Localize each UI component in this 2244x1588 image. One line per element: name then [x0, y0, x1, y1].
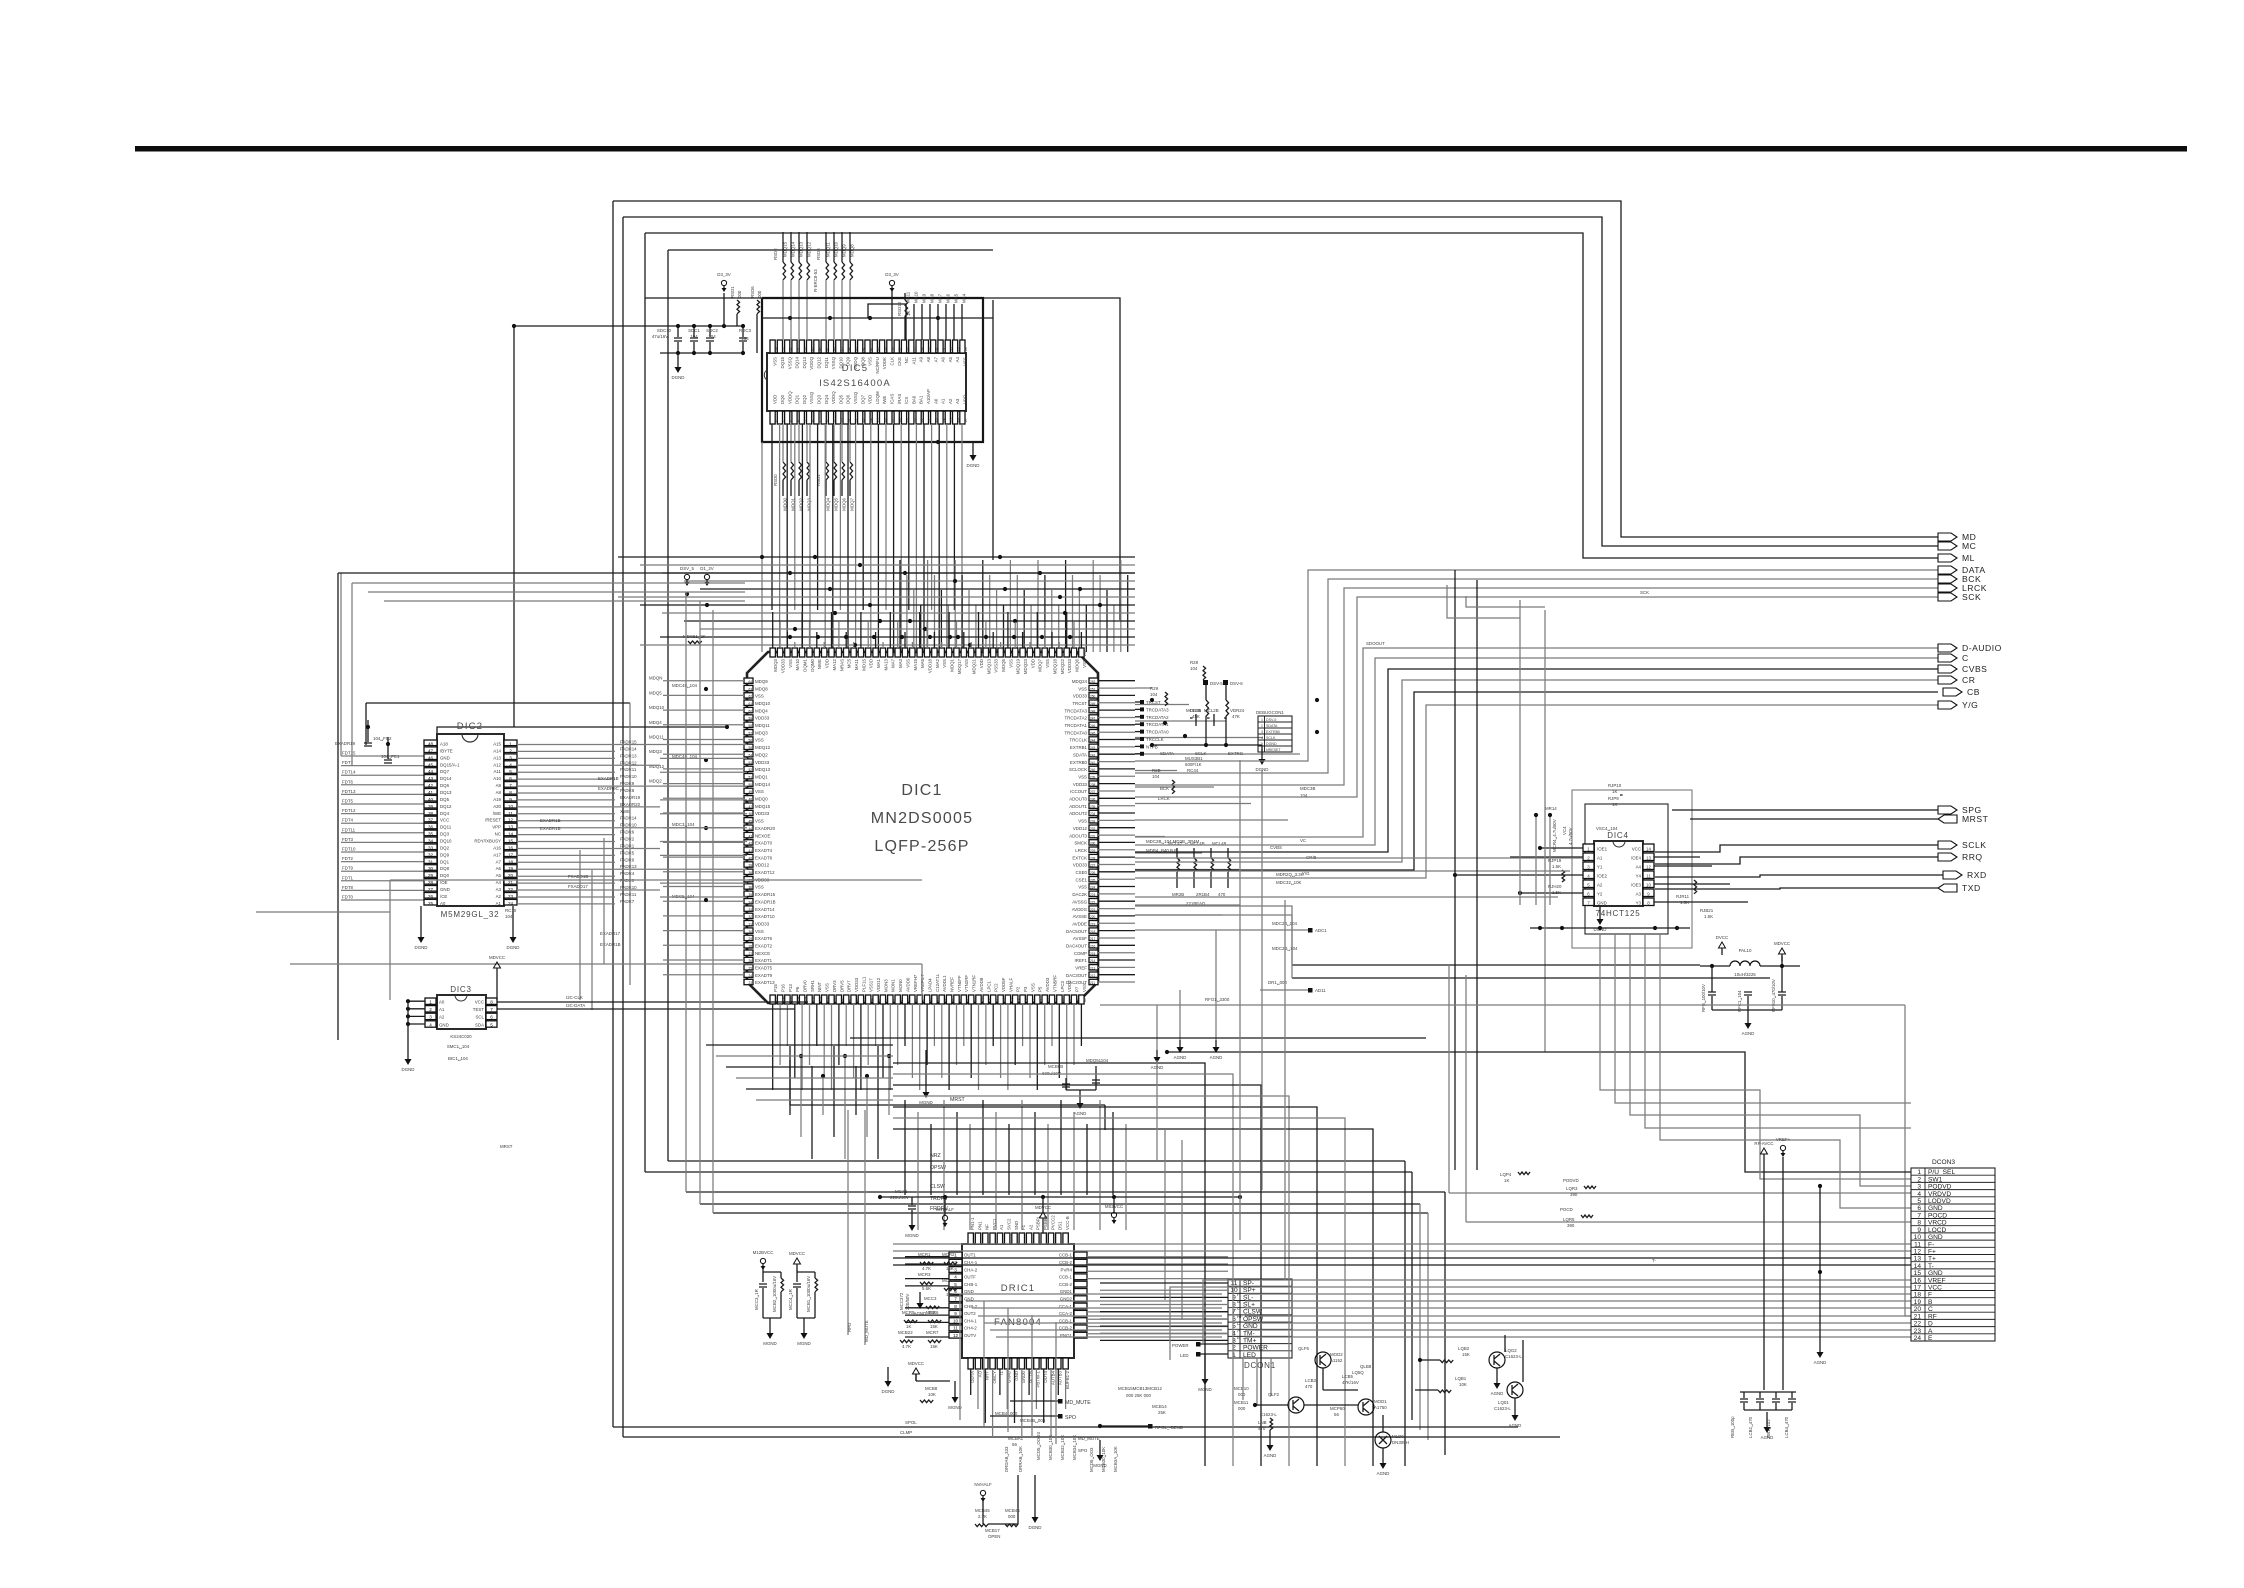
svg-text:FADR10: FADR10	[620, 823, 637, 828]
svg-text:46: 46	[749, 812, 753, 816]
svg-text:DRRAB␣10K: DRRAB␣10K	[1018, 1446, 1023, 1472]
svg-text:NVREF: NVREF	[950, 977, 955, 992]
svg-text:FDT4: FDT4	[342, 818, 354, 823]
svg-text:F: F	[1237, 1292, 1240, 1297]
svg-text:7: 7	[818, 420, 822, 422]
svg-text:219: 219	[966, 650, 970, 656]
svg-text:35: 35	[913, 347, 917, 351]
svg-text:1: 1	[429, 1000, 432, 1005]
svg-text:NC: NC	[904, 357, 909, 363]
svg-text:24: 24	[942, 418, 946, 422]
svg-text:MA7: MA7	[891, 658, 896, 668]
wires bottom small cluster	[982, 1501, 984, 1524]
svg-text:MA11: MA11	[906, 291, 911, 303]
svg-text:FADR10: FADR10	[620, 885, 637, 890]
svg-text:45: 45	[749, 820, 753, 824]
risers bottom mesh	[959, 1294, 961, 1420]
svg-text:DQ14: DQ14	[795, 356, 800, 368]
svg-text:93: 93	[877, 998, 881, 1002]
svg-text:FADR9: FADR9	[620, 781, 635, 786]
svg-text:DQ2: DQ2	[440, 846, 450, 851]
svg-text:52: 52	[749, 768, 753, 772]
svg-text:2: 2	[429, 1007, 432, 1012]
wires inductor to left	[1292, 964, 1700, 966]
svg-text:47: 47	[825, 347, 829, 351]
svg-text:VSS: VSS	[1078, 686, 1087, 691]
svg-text:AVDDE: AVDDE	[1072, 922, 1087, 927]
svg-text:12: 12	[854, 418, 858, 422]
svg-text:MRST: MRST	[1962, 814, 1989, 824]
svg-text:OUTV: OUTV	[964, 1333, 976, 1338]
svg-text:8: 8	[954, 1304, 957, 1309]
svg-text:44: 44	[428, 769, 434, 774]
svg-text:/RESET: /RESET	[485, 818, 501, 823]
wire MC net loop	[623, 217, 1938, 546]
svg-text:86: 86	[929, 998, 933, 1002]
svg-text:MCBA1: MCBA1	[1008, 1436, 1024, 1441]
svg-text:PN1: PN1	[977, 1221, 982, 1230]
svg-text:MDQ3: MDQ3	[773, 658, 778, 671]
svg-text:DQ5: DQ5	[838, 394, 843, 404]
output arrow BCK	[1938, 575, 1957, 583]
svg-text:MD_MUTE: MD_MUTE	[864, 1320, 869, 1342]
svg-text:MDQ0: MDQ0	[755, 797, 768, 802]
svg-text:VSS: VSS	[964, 659, 969, 668]
svg-text:208: 208	[885, 650, 889, 656]
DIC5 bottom pin row	[770, 411, 775, 424]
svg-text:NRAS: NRAS	[839, 659, 844, 671]
svg-text:DQ1: DQ1	[440, 859, 450, 864]
svg-text:LQP4: LQP4	[1500, 1172, 1512, 1177]
svg-text:FDT10: FDT10	[342, 847, 356, 852]
svg-text:/OE3: /OE3	[1631, 883, 1642, 888]
LED MLD01	[1375, 1432, 1391, 1448]
wires into DCON1	[1100, 1282, 1228, 1284]
svg-text:NC/RFU: NC/RFU	[875, 357, 880, 374]
svg-text:18: 18	[898, 418, 902, 422]
svg-text:47K: 47K	[1232, 714, 1240, 719]
svg-text:GND: GND	[1597, 901, 1607, 906]
svg-text:470: 470	[1218, 892, 1226, 897]
svg-text:MCB22: MCB22	[898, 1330, 913, 1335]
svg-text:231: 231	[1054, 650, 1058, 656]
svg-text:29: 29	[749, 937, 753, 941]
svg-text:43: 43	[428, 776, 434, 781]
svg-text:VSS: VSS	[963, 357, 968, 366]
ground AGND cluster C2	[1514, 1398, 1516, 1408]
svg-text:23: 23	[935, 418, 939, 422]
svg-text:NEXCE: NEXCE	[755, 951, 770, 956]
svg-text:RFO1␣3300: RFO1␣3300	[1205, 997, 1230, 1002]
svg-text:CCA-2: CCA-2	[1059, 1311, 1073, 1316]
svg-text:AVSSG: AVSSG	[1072, 899, 1087, 904]
svg-text:VSS: VSS	[788, 659, 793, 668]
svg-text:EXTCK: EXTCK	[1072, 855, 1087, 860]
wire CLSW	[686, 1191, 1445, 1193]
svg-text:MDQ11: MDQ11	[649, 735, 664, 740]
svg-text:MDVCC: MDVCC	[489, 955, 505, 960]
svg-text:MDQ12: MDQ12	[649, 764, 665, 769]
svg-text:40: 40	[876, 347, 880, 351]
svg-text:235: 235	[1090, 805, 1096, 809]
svg-text:52: 52	[789, 347, 793, 351]
svg-text:A11: A11	[911, 356, 916, 364]
svg-text:13: 13	[1646, 856, 1651, 861]
svg-text:EXADR1B: EXADR1B	[540, 818, 561, 823]
page top rule	[135, 146, 2187, 152]
svg-text:000: 000	[1238, 1392, 1246, 1397]
svg-text:AGND: AGND	[1377, 1471, 1390, 1476]
svg-text:60: 60	[749, 709, 753, 713]
wire RFO1 3300 long	[1100, 1004, 1905, 1006]
svg-text:244: 244	[1090, 739, 1096, 743]
wire loop around DIC4	[1585, 804, 1668, 934]
output arrow D-AUDIO	[1938, 644, 1957, 652]
svg-text:C: C	[1237, 1306, 1240, 1311]
svg-text:MDQ18: MDQ18	[1052, 658, 1057, 674]
svg-text:DQ11: DQ11	[824, 356, 829, 368]
svg-text:COMP: COMP	[1074, 951, 1087, 956]
svg-text:DRV7: DRV7	[847, 980, 852, 992]
svg-text:22: 22	[927, 418, 931, 422]
svg-text:DGND: DGND	[507, 945, 520, 950]
svg-text:FDT5: FDT5	[342, 799, 354, 804]
svg-text:FADR8: FADR8	[620, 788, 635, 793]
svg-text:38: 38	[749, 871, 753, 875]
svg-text:MCB8: MCB8	[925, 1386, 938, 1391]
wire NRZ	[668, 1160, 1405, 1162]
svg-text:TRCDATA3: TRCDATA3	[1146, 707, 1169, 712]
wire left vertical bus 1	[612, 201, 614, 1427]
svg-text:MDC3B: MDC3B	[1300, 786, 1315, 791]
svg-text:MR14: MR14	[1545, 806, 1557, 811]
svg-text:SDOOUT: SDOOUT	[1366, 641, 1385, 646]
IC DIC1 MN2DS0005 body	[747, 652, 1098, 1003]
svg-text:SCK: SCK	[1640, 590, 1649, 595]
svg-text:MRST: MRST	[500, 1144, 513, 1149]
svg-text:FDT6: FDT6	[342, 779, 354, 784]
svg-text:31: 31	[942, 347, 946, 351]
svg-text:DN305H: DN305H	[1392, 1440, 1409, 1445]
svg-text:DQ13: DQ13	[440, 790, 452, 795]
svg-text:POWER: POWER	[1172, 1343, 1189, 1348]
svg-text:56: 56	[1012, 1442, 1017, 1447]
svg-text:EXADT0: EXADT0	[755, 841, 773, 846]
svg-text:DIC2: DIC2	[457, 721, 483, 732]
svg-text:GND: GND	[440, 887, 450, 892]
svg-text:MN2DS0005: MN2DS0005	[871, 810, 973, 827]
svg-text:243: 243	[1090, 746, 1096, 750]
svg-text:Y4: Y4	[1636, 874, 1642, 879]
transistor cluster B wires	[1255, 1404, 1288, 1406]
svg-text:19: 19	[906, 418, 910, 422]
svg-text:MA10: MA10	[914, 291, 919, 303]
wire cap rail to DIC2 supply	[513, 326, 515, 727]
svg-text:MDQ6: MDQ6	[842, 497, 847, 510]
wires F-/F+/T+/T- long	[893, 1243, 1911, 1245]
svg-text:SPO: SPO	[1065, 1415, 1076, 1421]
resistors RSD1 RSD6 000 left of DIC5	[737, 300, 740, 314]
svg-text:VDD12: VDD12	[876, 977, 881, 992]
svg-text:213: 213	[1090, 967, 1096, 971]
svg-text:104: 104	[505, 914, 513, 919]
svg-text:25: 25	[949, 418, 953, 422]
svg-text:200: 200	[826, 650, 830, 656]
svg-text:9: 9	[954, 1311, 957, 1316]
svg-text:DAC3OUT: DAC3OUT	[1066, 973, 1087, 978]
svg-text:MGND: MGND	[905, 1233, 918, 1238]
svg-text:FXADD17: FXADD17	[568, 884, 588, 889]
svg-text:241: 241	[1090, 761, 1096, 765]
svg-text:230: 230	[1046, 650, 1050, 656]
svg-text:DQM1: DQM1	[803, 658, 808, 671]
svg-text:216: 216	[943, 650, 947, 656]
svg-text:DIC3: DIC3	[450, 985, 471, 994]
svg-text:MRST: MRST	[950, 1097, 966, 1103]
svg-text:104: 104	[708, 334, 716, 339]
svg-text:RRQ: RRQ	[1962, 852, 1983, 862]
verticals descending to FAN area	[904, 1100, 906, 1195]
svg-text:VSS33: VSS33	[994, 658, 999, 672]
svg-text:A1: A1	[941, 398, 946, 404]
svg-text:P5: P5	[1038, 986, 1043, 992]
svg-text:ADOUT2: ADOUT2	[1069, 811, 1087, 816]
svg-text:RSD3: RSD3	[816, 248, 821, 260]
svg-text:DQ7: DQ7	[860, 394, 865, 404]
svg-text:38: 38	[428, 811, 434, 816]
wires cluster C up	[1504, 1335, 1506, 1352]
svg-text:MDQ5: MDQ5	[1001, 658, 1006, 671]
svg-text:MDQ6: MDQ6	[1074, 658, 1079, 671]
svg-text:58: 58	[749, 724, 753, 728]
svg-text:PSBPL: PSBPL	[1036, 1215, 1041, 1230]
svg-text:20: 20	[913, 418, 917, 422]
svg-text:FADR5: FADR5	[620, 850, 635, 855]
svg-text:65: 65	[1083, 998, 1087, 1002]
svg-text:75: 75	[1010, 998, 1014, 1002]
svg-text:198: 198	[811, 650, 815, 656]
svg-text:VTN1RF: VTN1RF	[972, 975, 977, 992]
wire CR staircase	[1135, 680, 1938, 862]
svg-text:A3: A3	[955, 398, 960, 404]
svg-text:NRESET: NRESET	[1266, 748, 1281, 752]
svg-text:55: 55	[749, 746, 753, 750]
svg-text:34: 34	[920, 347, 924, 351]
svg-text:DRV0: DRV0	[803, 980, 808, 992]
svg-text:A9: A9	[496, 783, 502, 788]
svg-text:CLK: CLK	[890, 357, 895, 366]
IC DIC5 IS42S16400A body	[767, 353, 966, 411]
junction dots DIC4 rail	[1530, 927, 1690, 929]
svg-text:VSS: VSS	[1078, 819, 1087, 824]
svg-text:41: 41	[749, 849, 753, 853]
svg-text:RSD1: RSD1	[816, 474, 821, 486]
ground MGND below DCON1	[1204, 1354, 1206, 1372]
svg-text:MCB14: MCB14	[1152, 1404, 1167, 1409]
svg-text:M12BVCC: M12BVCC	[753, 1250, 774, 1255]
svg-text:EXADR1B: EXADR1B	[598, 776, 619, 781]
svg-text:DQ6: DQ6	[846, 394, 851, 404]
ground AGND DAC cluster	[1179, 1040, 1181, 1047]
wires cluster B	[1304, 1404, 1358, 1406]
svg-text:DQ3: DQ3	[440, 832, 450, 837]
svg-text:51: 51	[796, 347, 800, 351]
svg-text:34: 34	[749, 900, 753, 904]
svg-text:BA0: BA0	[911, 395, 916, 404]
ground MGND caps pair 2	[803, 1318, 805, 1326]
square markers MD_MUTE SPO	[1058, 1399, 1063, 1404]
svg-text:MCR6: MCR6	[926, 1310, 939, 1315]
wires FAN top bypass cluster	[880, 1196, 1240, 1198]
svg-text:222: 222	[1090, 900, 1096, 904]
svg-text:AGND: AGND	[1264, 1453, 1277, 1458]
svg-text:FADR9: FADR9	[620, 857, 635, 862]
svg-text:NINT: NINT	[817, 981, 822, 992]
wires DIC1 to DIC4 horizontal	[1135, 857, 1582, 859]
svg-text:MON1: MON1	[891, 979, 896, 992]
svg-text:40: 40	[428, 797, 434, 802]
svg-text:41: 41	[869, 347, 873, 351]
svg-text:OPEN: OPEN	[988, 1534, 1000, 1539]
svg-text:VDD: VDD	[825, 659, 830, 668]
svg-text:8: 8	[490, 1000, 493, 1005]
svg-text:11: 11	[508, 811, 513, 816]
svg-text:CVBS: CVBS	[1270, 845, 1282, 850]
svg-text:25K: 25K	[1158, 1410, 1166, 1415]
svg-text:VDDQ: VDDQ	[809, 356, 814, 369]
svg-text:LDQM: LDQM	[875, 391, 880, 404]
svg-text:4: 4	[796, 420, 800, 422]
svg-text:MCB9B: MCB9B	[1048, 1064, 1063, 1069]
svg-text:MCC4␣1R: MCC4␣1R	[788, 1289, 793, 1310]
svg-text:100: 100	[826, 996, 830, 1002]
svg-text:DQM0: DQM0	[810, 658, 815, 671]
svg-text:CLMP: CLMP	[900, 1430, 912, 1435]
svg-text:FDT3: FDT3	[342, 837, 354, 842]
svg-text:CCB-1: CCB-1	[1059, 1275, 1073, 1280]
svg-text:DS1: DS1	[1058, 1221, 1063, 1230]
svg-text:33: 33	[749, 908, 753, 912]
svg-text:EXADT13: EXADT13	[755, 980, 775, 985]
svg-text:VSS: VSS	[1030, 983, 1035, 992]
svg-text:VDD33: VDD33	[1073, 863, 1088, 868]
resistor network RSD1 array below DIC5	[826, 462, 829, 480]
svg-text:DQ15/A-1: DQ15/A-1	[440, 762, 460, 767]
svg-text:104: 104	[1150, 692, 1158, 697]
square marker BPOL-BEND	[1148, 1424, 1153, 1429]
svg-text:LNB: LNB	[1258, 1420, 1267, 1425]
svg-text:221: 221	[980, 650, 984, 656]
svg-text:A15: A15	[493, 742, 501, 747]
DIC1 left pin column	[744, 678, 753, 683]
svg-text:229: 229	[1090, 849, 1096, 853]
wire TRDRV	[700, 1203, 1420, 1205]
svg-text:54: 54	[774, 347, 778, 351]
svg-text:19: 19	[508, 866, 514, 871]
svg-text:15K: 15K	[1462, 1352, 1470, 1357]
svg-text:VREFH7: VREFH7	[913, 974, 918, 992]
svg-text:OUT2: OUT2	[964, 1311, 976, 1316]
svg-text:213: 213	[921, 650, 925, 656]
svg-text:DQ1: DQ1	[795, 394, 800, 404]
DIC1 right pin stub wires	[1098, 680, 1135, 682]
wire loop top-left extension	[645, 297, 763, 299]
svg-text:MGND: MGND	[797, 1341, 810, 1346]
svg-text:DAC4OUT: DAC4OUT	[1066, 944, 1087, 949]
svg-text:MCL2B: MCL2B	[1186, 708, 1201, 713]
svg-text:4: 4	[509, 762, 512, 767]
capacitor RDC3 104	[742, 326, 744, 337]
svg-text:RXD: RXD	[1967, 870, 1987, 880]
DIC1 top pin stub wires	[772, 612, 774, 648]
svg-text:LPC3: LPC3	[1060, 980, 1065, 992]
ground AGND cluster B	[1382, 1448, 1384, 1456]
svg-text:VREF+: VREF+	[1776, 1137, 1791, 1142]
svg-text:20: 20	[508, 873, 514, 878]
svg-text:RJP10: RJP10	[1608, 783, 1622, 788]
resistors DR26 VDR24 pullups	[1205, 685, 1207, 700]
svg-text:31: 31	[428, 859, 434, 864]
svg-text:CR: CR	[1962, 675, 1975, 685]
svg-text:1: 1	[954, 1253, 957, 1258]
svg-text:MA10: MA10	[795, 658, 800, 670]
vertical gray pair to DCON3	[1448, 965, 1450, 1193]
svg-text:216: 216	[1090, 945, 1096, 949]
svg-text:232: 232	[1090, 827, 1096, 831]
svg-text:EXTRB1: EXTRB1	[1070, 745, 1088, 750]
svg-text:EXADR9C: EXADR9C	[598, 786, 619, 791]
svg-text:DGND: DGND	[967, 463, 980, 468]
svg-text:MCP60: MCP60	[1330, 1406, 1345, 1411]
svg-text:39: 39	[428, 804, 434, 809]
svg-text:225: 225	[1090, 878, 1096, 882]
svg-text:95: 95	[863, 998, 867, 1002]
svg-text:62: 62	[749, 695, 753, 699]
svg-text:206: 206	[870, 650, 874, 656]
svg-text:I2C-DATA: I2C-DATA	[566, 1003, 585, 1008]
svg-text:24: 24	[1914, 1335, 1922, 1342]
DRIC1 top pin row	[968, 1233, 973, 1244]
svg-text:42: 42	[428, 783, 434, 788]
ground DGND left below FAN	[887, 1367, 889, 1374]
svg-text:251: 251	[1090, 687, 1096, 691]
svg-text:15K: 15K	[946, 1292, 954, 1297]
ground MGND caps pair 1	[769, 1318, 771, 1326]
svg-text:27: 27	[964, 418, 968, 422]
svg-text:RSD2: RSD2	[773, 248, 778, 260]
svg-text:DGND: DGND	[882, 1389, 895, 1394]
DIC3 right pin boxes	[486, 998, 497, 1004]
svg-text:MCB32␣10K: MCB32␣10K	[1060, 1435, 1065, 1460]
svg-text:VSS: VSS	[825, 983, 830, 992]
svg-text:TRCDATA0: TRCDATA0	[1146, 730, 1169, 735]
svg-text:45: 45	[840, 347, 844, 351]
svg-text:MDQ5: MDQ5	[834, 497, 839, 510]
svg-text:A19: A19	[493, 797, 501, 802]
svg-text:RSD1: RSD1	[730, 286, 735, 298]
svg-text:VSSQ: VSSQ	[831, 356, 836, 369]
svg-text:IREF1: IREF1	[1075, 958, 1088, 963]
svg-text:SDC1: SDC1	[688, 328, 700, 333]
wire RPD vertical	[847, 1110, 849, 1335]
svg-text:3: 3	[789, 420, 793, 422]
ground AGND below DIC1 left	[925, 1050, 927, 1085]
svg-text:VDD33: VDD33	[1073, 782, 1088, 787]
svg-text:FDT1: FDT1	[342, 875, 354, 880]
svg-text:MDQ10: MDQ10	[755, 701, 771, 706]
svg-text:P13: P13	[788, 984, 793, 992]
svg-text:27: 27	[428, 887, 434, 892]
